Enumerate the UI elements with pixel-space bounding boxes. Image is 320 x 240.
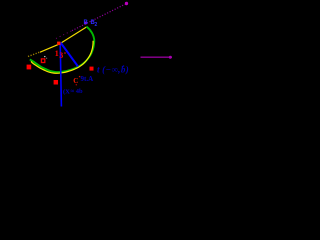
svg-text:B: B (84, 20, 89, 26)
red open square marker (41, 59, 44, 63)
magenta end dot (125, 2, 128, 5)
magenta dashed line (faint left part) (56, 31, 72, 39)
blue vertical leg (60, 43, 61, 107)
blue diagonal leg (61, 43, 79, 67)
svg-text:≈ 4b: ≈ 4b (71, 88, 83, 95)
svg-text:t (−∞,b): t (−∞,b) (97, 65, 129, 75)
small red dot above bottom text (76, 84, 77, 85)
gray dot (46, 58, 47, 59)
magenta horizontal segment (141, 56, 173, 58)
yellow arc (31, 41, 93, 74)
red square A (27, 65, 32, 70)
yellow ray right (D to B) (59, 27, 87, 44)
red marker at D (57, 42, 60, 45)
svg-text:C: C (73, 77, 78, 85)
white dot (44, 56, 45, 57)
svg-text:3: 3 (59, 51, 63, 60)
legend red square (90, 67, 94, 71)
svg-text:9t.A: 9t.A (81, 75, 94, 83)
svg-text:(X: (X (63, 89, 70, 96)
magenta dot at B (84, 22, 87, 25)
magenta segment end dot (169, 56, 172, 59)
red square C-marker (54, 80, 58, 85)
magenta dashed line (bright right part) (72, 4, 125, 30)
svg-text:2: 2 (95, 22, 98, 28)
green arc (30, 27, 94, 73)
yellow ray left (A to D) (40, 44, 59, 52)
yellow dotted dim segment (28, 52, 40, 57)
svg-text:1: 1 (55, 49, 59, 58)
